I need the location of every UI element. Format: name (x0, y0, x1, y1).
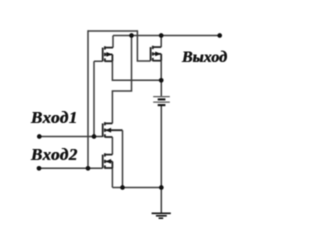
wire: battery bottom lead down to ground rail (160, 105, 162, 187)
wire: VT2 drain riser (160, 36, 162, 48)
wire: VT3 source to VT4 drain (111, 137, 113, 155)
wire: output tap down to VT3 drain (112, 36, 131, 124)
wire: VT3 substrate down to ground rail (122, 130, 124, 187)
transistor VT4 (NMOS bottom) (103, 153, 113, 168)
wire: Вход1 tap up to VT1 gate (node B) (94, 61, 103, 136)
node: output terminal (217, 33, 222, 38)
node: output tap junction (129, 33, 134, 38)
label Вход1 (31, 109, 78, 126)
ground (152, 213, 171, 218)
wire: Вход2-to-VT2-gate crossover, horizontal top (88, 30, 137, 32)
node: VT3 substrate-to-rail junction (120, 185, 125, 190)
transistor VT1 (PMOS top-left) (103, 46, 113, 61)
wire: VT2 source riser (160, 61, 162, 81)
wire: Вход2 input line to VT4 gate (39, 167, 103, 169)
transistor VT2 (PMOS top-right) (151, 46, 162, 61)
node: Вход1 gate tap junction (92, 134, 97, 139)
node: Вход1 terminal (37, 134, 42, 139)
wire: bottom ground rail (112, 187, 161, 189)
node: VT2 drain junction (159, 33, 164, 38)
wire: output net horizontal rail (113, 35, 220, 37)
node: battery-to-rail junction (159, 185, 164, 190)
node: Вход2 gate tap junction (86, 166, 91, 171)
label Вход2 (31, 146, 78, 163)
node: battery top junction (159, 78, 164, 83)
transistor VT3 (NMOS middle) (103, 122, 123, 137)
wire: Вход1 input line to VT3 gate (39, 136, 102, 138)
wire: ground stem (160, 188, 162, 214)
wire: VT4 source riser to ground rail (111, 168, 113, 188)
label Выход (182, 50, 227, 66)
wire: down then right into VT2 gate (137, 30, 150, 61)
wire: VT1 source riser and rail to battery top (112, 61, 161, 80)
battery GB1 (two cells) (153, 97, 170, 103)
node: Вход2 terminal (37, 166, 42, 171)
wire: battery top lead (160, 80, 162, 96)
wire: vertical from Вход2 up (node A) (87, 30, 89, 168)
wire: VT1 drain riser (112, 36, 114, 48)
